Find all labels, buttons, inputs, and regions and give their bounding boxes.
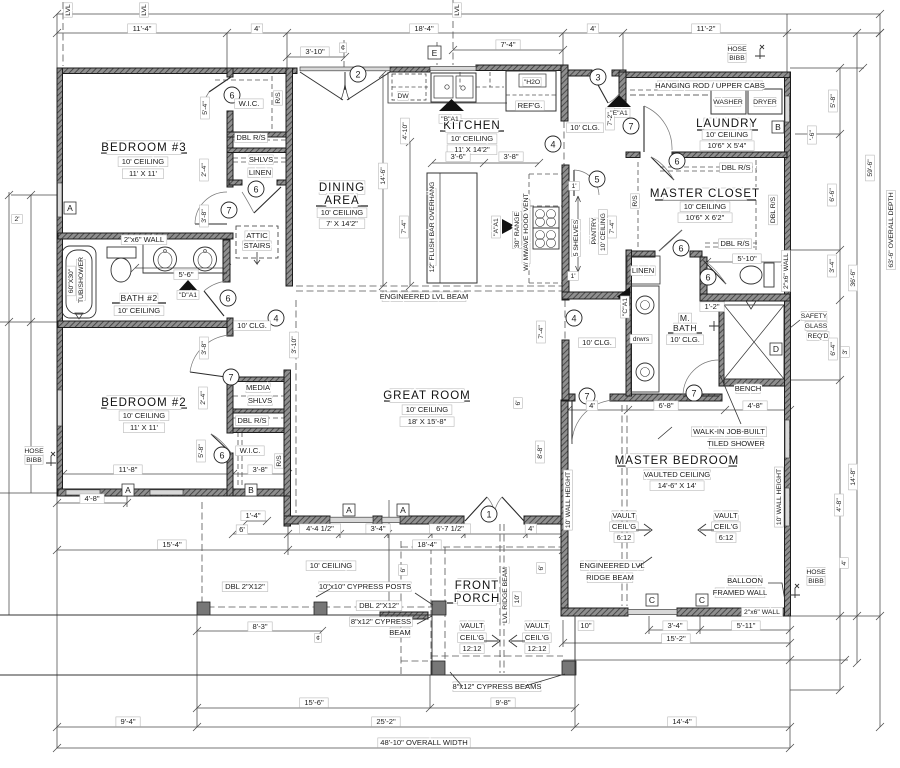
svg-text:6: 6 xyxy=(253,185,258,195)
wall: closet strip west (bedrooms east wall) segments xyxy=(227,68,233,77)
svg-text:A: A xyxy=(67,203,73,213)
fixture: bath2 sinks xyxy=(154,247,177,271)
fixture: linen closet master hall xyxy=(627,256,660,284)
svg-text:PORCH: PORCH xyxy=(454,593,501,605)
svg-text:4'-4 1/2": 4'-4 1/2" xyxy=(306,524,334,533)
svg-text:DW: DW xyxy=(397,93,409,100)
wall: kitchen north segments xyxy=(390,67,430,72)
svg-text:11'-8": 11'-8" xyxy=(119,465,138,474)
svg-text:10' CEILING: 10' CEILING xyxy=(123,411,165,420)
svg-text:4'-10": 4'-10" xyxy=(402,122,409,140)
svg-text:PANTRY: PANTRY xyxy=(591,217,598,244)
svg-text:6:12: 6:12 xyxy=(719,533,734,542)
wall: master bedroom south xyxy=(561,608,628,616)
svg-text:15'-4": 15'-4" xyxy=(162,540,182,549)
marker D'A1 bath2 xyxy=(179,280,197,290)
svg-text:14'-6" X 14': 14'-6" X 14' xyxy=(658,481,697,490)
fixture: master toilet xyxy=(764,263,774,287)
door: toilet room xyxy=(703,260,726,284)
svg-text:15'-6": 15'-6" xyxy=(304,698,324,707)
svg-text:30" RANGE: 30" RANGE xyxy=(514,212,521,248)
door: bedroom2 WIC xyxy=(211,434,232,454)
wall: master closet south xyxy=(626,251,655,257)
wall: bath2 / bedroom2 partition xyxy=(58,321,233,328)
fixture: hose bibb symbols xyxy=(46,452,56,466)
svg-text:1': 1' xyxy=(570,273,575,280)
svg-text:RIDGE BEAM: RIDGE BEAM xyxy=(586,573,634,582)
door: bath2 xyxy=(204,291,224,316)
svg-text:SAFETY: SAFETY xyxy=(801,313,828,320)
svg-text:6': 6' xyxy=(515,400,522,405)
svg-text:BIBB: BIBB xyxy=(729,55,745,62)
svg-text:10'6" X 5'4": 10'6" X 5'4" xyxy=(708,141,747,150)
dash: kitchen-east opening xyxy=(563,121,565,165)
svg-text:60"X30": 60"X30" xyxy=(68,268,75,293)
door: bedroom3 entry xyxy=(195,223,227,225)
svg-text:3'-10": 3'-10" xyxy=(291,336,298,354)
svg-text:8"x12" CYPRESS BEAMS: 8"x12" CYPRESS BEAMS xyxy=(453,682,542,691)
svg-text:11'-2": 11'-2" xyxy=(697,24,716,33)
svg-text:10' CEILING: 10' CEILING xyxy=(310,561,352,570)
svg-text:WASHER: WASHER xyxy=(713,99,743,106)
svg-text:10' WALL HEIGHT: 10' WALL HEIGHT xyxy=(565,472,572,528)
svg-text:4'-8": 4'-8" xyxy=(84,494,99,503)
wall: dining west / closet strip east xyxy=(286,68,293,286)
svg-text:drwrs: drwrs xyxy=(633,336,650,343)
fixture: kitchen island bar xyxy=(427,173,477,283)
marker C'A1 master bath xyxy=(617,287,630,306)
wall: master bedroom west xyxy=(561,400,568,616)
svg-text:TUB/SHOWER: TUB/SHOWER xyxy=(78,257,85,303)
wall: shower west xyxy=(719,301,724,386)
extension verticals bottom xyxy=(197,500,790,748)
svg-text:3'-8": 3'-8" xyxy=(252,465,267,474)
window: bedroom3 left wall xyxy=(58,183,63,217)
svg-text:LVL: LVL xyxy=(141,4,148,16)
extension verticals mid xyxy=(288,496,563,555)
svg-text:3'-4": 3'-4" xyxy=(667,621,682,630)
dim line: 9'-4 / 25'-2 / 14'-4 y727 xyxy=(57,726,790,728)
svg-text:LVL: LVL xyxy=(65,4,72,16)
right chain extension horizontals xyxy=(790,68,880,690)
wall: exterior bottom-left (bedroom2 south) xyxy=(58,489,290,496)
svg-text:W.I.C.: W.I.C. xyxy=(240,446,261,455)
wall: toilet room south / shower north xyxy=(700,294,790,301)
dim line: master south 3'-4 / 5'-11 xyxy=(649,616,790,634)
svg-text:'-6": '-6" xyxy=(809,130,816,140)
svg-text:CEIL'G: CEIL'G xyxy=(612,522,636,531)
svg-text:DBL R/S: DBL R/S xyxy=(236,133,265,142)
wall: master hall south segments + master bath south xyxy=(562,394,575,401)
svg-text:AREA: AREA xyxy=(324,195,359,207)
svg-text:E: E xyxy=(432,48,438,58)
wall: patio step bar xyxy=(380,612,428,619)
svg-text:BENCH: BENCH xyxy=(735,384,762,393)
svg-text:D: D xyxy=(773,344,779,354)
svg-text:6'-4": 6'-4" xyxy=(830,342,837,356)
svg-text:6:12: 6:12 xyxy=(617,533,632,542)
fixture: walk-in shower with X xyxy=(724,305,784,379)
wall: laundry south / master closet north xyxy=(626,152,640,158)
svg-text:6': 6' xyxy=(400,567,407,572)
dash: laundry counter xyxy=(630,89,708,91)
dim line: master hall y410 xyxy=(564,406,794,414)
wall: great room west xyxy=(284,370,291,526)
svg-text:DBL R/S: DBL R/S xyxy=(721,163,750,172)
svg-text:6: 6 xyxy=(674,157,679,167)
svg-text:7: 7 xyxy=(584,392,589,402)
svg-text:6: 6 xyxy=(225,294,230,304)
dash: foyer/great room boundary xyxy=(295,300,297,513)
svg-text:DBL R/S: DBL R/S xyxy=(770,196,777,223)
dim line: dining verticals 14'-6 / 7'-4 xyxy=(379,70,414,290)
svg-text:7: 7 xyxy=(628,122,633,132)
wall: toilet room west xyxy=(700,257,707,301)
svg-text:7'-4": 7'-4" xyxy=(500,40,515,49)
svg-text:2': 2' xyxy=(14,216,19,223)
svg-text:CEIL'G: CEIL'G xyxy=(714,522,738,531)
svg-text:3'-8": 3'-8" xyxy=(201,341,208,355)
svg-text:5'-4": 5'-4" xyxy=(202,101,209,115)
svg-text:10' CEILING: 10' CEILING xyxy=(600,213,607,251)
svg-text:LINEN: LINEN xyxy=(249,168,271,177)
svg-text:10' CEILING: 10' CEILING xyxy=(122,157,164,166)
window: dining casement xyxy=(300,67,390,71)
dash: LVL line top-center xyxy=(452,0,454,65)
svg-text:11'-4": 11'-4" xyxy=(133,24,152,33)
svg-text:R/S: R/S xyxy=(276,455,283,467)
dash: great room-master hall opening xyxy=(564,300,566,340)
svg-text:BATH: BATH xyxy=(673,323,697,333)
wall: pantry south xyxy=(562,292,626,299)
fixture: porch slab lines xyxy=(0,615,575,675)
door: linen closet hall xyxy=(254,187,281,213)
window: great room south x2 xyxy=(330,517,373,522)
svg-text:3'-6": 3'-6" xyxy=(450,152,465,161)
svg-text:DINING: DINING xyxy=(319,182,365,194)
dim line: bath2 5'-6 xyxy=(131,264,231,272)
svg-text:3'-8": 3'-8" xyxy=(503,152,518,161)
door: master closet north xyxy=(651,157,674,180)
svg-text:7: 7 xyxy=(228,373,233,383)
svg-text:M.: M. xyxy=(680,313,690,323)
door: laundry xyxy=(643,106,645,152)
door: bedroom2 entry xyxy=(190,372,233,378)
marker E'A1 laundry xyxy=(607,95,631,107)
svg-text:"B"A1: "B"A1 xyxy=(441,116,459,123)
svg-text:3': 3' xyxy=(842,349,849,354)
svg-text:R/S: R/S xyxy=(275,92,282,104)
svg-text:W/ MWAVE HOOD VENT: W/ MWAVE HOOD VENT xyxy=(523,193,530,270)
svg-text:STAIRS: STAIRS xyxy=(244,241,271,250)
svg-text:LAUNDRY: LAUNDRY xyxy=(696,118,758,130)
svg-text:C: C xyxy=(649,595,655,605)
svg-text:4': 4' xyxy=(589,401,595,410)
wall: master NE (below shower) xyxy=(719,379,790,386)
svg-text:DBL R/S: DBL R/S xyxy=(720,239,749,248)
svg-text:14'-8": 14'-8" xyxy=(850,468,857,486)
dash: porch ridge beam xyxy=(500,524,504,673)
door: master closet south xyxy=(659,230,682,251)
svg-text:6': 6' xyxy=(538,565,545,570)
svg-text:CEIL'G: CEIL'G xyxy=(525,633,549,642)
svg-text:BATH #2: BATH #2 xyxy=(120,293,157,303)
svg-text:A: A xyxy=(400,505,406,515)
room name underlines xyxy=(101,107,758,603)
wall: strip partitions horizontal xyxy=(227,132,290,137)
dim line: 3'-10 window xyxy=(287,56,345,58)
svg-text:LVL RIDGE BEAM: LVL RIDGE BEAM xyxy=(502,567,509,623)
fixture: porch posts xyxy=(197,601,576,675)
svg-text:36'-6": 36'-6" xyxy=(850,269,857,287)
svg-text:12:12: 12:12 xyxy=(527,644,546,653)
dim line: 15'-6 / 9'-8 y708 xyxy=(197,707,575,709)
svg-text:4': 4' xyxy=(254,24,260,33)
svg-text:10' CEILING: 10' CEILING xyxy=(706,130,748,139)
svg-text:5'-11": 5'-11" xyxy=(737,621,756,630)
svg-text:9'-4": 9'-4" xyxy=(120,717,135,726)
window: bedroom2 left wall xyxy=(58,390,63,426)
svg-text:10'6" X 6'2": 10'6" X 6'2" xyxy=(686,213,725,222)
dim line: y660 right xyxy=(563,659,848,661)
svg-text:MEDIA: MEDIA xyxy=(246,383,271,392)
svg-text:7'-4": 7'-4" xyxy=(538,325,545,339)
fixture: kitchen double sink xyxy=(431,73,476,102)
door: master bath entry xyxy=(683,395,719,397)
svg-text:1'-4": 1'-4" xyxy=(245,511,260,520)
svg-text:A: A xyxy=(125,485,131,495)
svg-text:11' X 11': 11' X 11' xyxy=(130,423,158,432)
fixture: shower head mark xyxy=(746,301,756,309)
dim line: topmost overall xyxy=(57,13,880,15)
door: master bedroom entry xyxy=(571,400,573,444)
wall: exterior left xyxy=(57,68,63,496)
svg-text:BEAM: BEAM xyxy=(389,628,411,637)
svg-text:"D"A1: "D"A1 xyxy=(179,292,197,299)
svg-text:18'-4": 18'-4" xyxy=(414,24,434,33)
svg-text:B: B xyxy=(775,122,781,132)
svg-text:SHLVS: SHLVS xyxy=(249,155,273,164)
dim line: top first string xyxy=(57,32,880,34)
svg-text:3'-4": 3'-4" xyxy=(370,524,385,533)
svg-text:10' CLG.: 10' CLG. xyxy=(670,335,700,344)
svg-text:VAULT: VAULT xyxy=(714,511,738,520)
wall: pantry west xyxy=(562,165,569,300)
svg-text:5'-10": 5'-10" xyxy=(737,254,757,263)
svg-text:7' X 14'2": 7' X 14'2" xyxy=(326,219,358,228)
dim line: 7'-4 kitchen top xyxy=(453,49,563,51)
dim line: kitchen 3'-6 / 3'-8 xyxy=(428,159,543,167)
svg-text:10"x10" CYPRESS POSTS: 10"x10" CYPRESS POSTS xyxy=(319,582,411,591)
svg-text:GREAT ROOM: GREAT ROOM xyxy=(383,390,471,402)
svg-text:4'-8": 4'-8" xyxy=(747,401,762,410)
left chain xyxy=(9,192,31,615)
pantry shelf arrow xyxy=(576,196,581,272)
door: bedroom3 WIC xyxy=(209,77,231,92)
svg-text:7: 7 xyxy=(691,389,696,399)
window: master south x2 xyxy=(628,609,677,614)
svg-text:9'-8": 9'-8" xyxy=(495,698,510,707)
fixture: tub/shower 60x30 bath2 xyxy=(62,246,96,318)
svg-text:8'-8": 8'-8" xyxy=(537,445,544,459)
fixture: bath2 vanity counter xyxy=(143,240,227,273)
door: front entry double xyxy=(465,497,524,521)
door: pantry xyxy=(573,170,575,196)
svg-text:C: C xyxy=(699,595,705,605)
svg-text:3'-10": 3'-10" xyxy=(305,47,325,56)
fixture: washer xyxy=(711,89,746,114)
svg-text:2"x6" WALL: 2"x6" WALL xyxy=(783,253,790,289)
svg-text:25'-2": 25'-2" xyxy=(376,717,396,726)
right chain verticals xyxy=(840,33,857,690)
svg-text:CEIL'G: CEIL'G xyxy=(460,633,484,642)
svg-text:7: 7 xyxy=(226,206,231,216)
svg-text:BEDROOM #3: BEDROOM #3 xyxy=(101,142,186,154)
dim line: 15'-4 / 18'-4 y550 xyxy=(57,549,563,551)
fixture: dryer xyxy=(748,89,782,114)
wall: master bath west xyxy=(626,250,632,396)
dim line: 4'-8 left xyxy=(57,496,127,748)
svg-text:10' WALL HEIGHT: 10' WALL HEIGHT xyxy=(776,469,783,525)
svg-text:10' CEILING: 10' CEILING xyxy=(684,202,726,211)
svg-text:6'-7 1/2": 6'-7 1/2" xyxy=(436,524,464,533)
window: master right wall x2 xyxy=(785,420,790,458)
wall: great room east segment xyxy=(562,340,569,400)
svg-text:R/S: R/S xyxy=(632,195,639,207)
fixture: attic stairs dashed box xyxy=(236,226,278,258)
svg-text:BALLOON: BALLOON xyxy=(727,576,763,585)
dash: E marker line xyxy=(436,42,438,65)
svg-text:14'-4": 14'-4" xyxy=(672,717,692,726)
fixture: dishwasher box xyxy=(392,74,426,100)
dash: LVL line top-left xyxy=(62,2,64,66)
wall: laundry west upper xyxy=(619,72,626,104)
svg-text:1: 1 xyxy=(486,510,491,520)
svg-text:10' CLG.: 10' CLG. xyxy=(237,321,267,330)
svg-text:10' CEILING: 10' CEILING xyxy=(451,134,493,143)
svg-text:12:12: 12:12 xyxy=(462,644,481,653)
svg-text:4': 4' xyxy=(590,24,596,33)
svg-text:10' CEILING: 10' CEILING xyxy=(118,306,160,315)
svg-text:4'-8": 4'-8" xyxy=(836,498,843,512)
svg-text:8"x12" CYPRESS: 8"x12" CYPRESS xyxy=(351,617,411,626)
right chain ticks xyxy=(836,29,884,731)
window: laundry right wall xyxy=(785,96,790,122)
svg-text:HANGING ROD / UPPER CABS: HANGING ROD / UPPER CABS xyxy=(655,81,765,90)
svg-text:A: A xyxy=(346,505,352,515)
section marker triangles xyxy=(179,95,631,306)
svg-text:WALK-IN JOB-BUILT: WALK-IN JOB-BUILT xyxy=(693,427,765,436)
svg-text:4: 4 xyxy=(550,140,555,150)
dash: fridge recess xyxy=(506,94,556,96)
wall: great room south w/ door opening xyxy=(284,516,330,524)
svg-text:HOSE: HOSE xyxy=(727,46,747,53)
svg-text:5'-8": 5'-8" xyxy=(830,94,837,108)
svg-text:HOSE: HOSE xyxy=(24,448,44,455)
dim line: foyer string y534 xyxy=(233,533,563,535)
svg-text:18'-4": 18'-4" xyxy=(417,540,437,549)
svg-text:7'-4": 7'-4" xyxy=(609,220,616,234)
svg-text:10' CEILING: 10' CEILING xyxy=(321,208,363,217)
svg-text:W.I.C.: W.I.C. xyxy=(239,99,260,108)
svg-text:4: 4 xyxy=(571,314,576,324)
svg-text:2"x6" WALL: 2"x6" WALL xyxy=(124,235,164,244)
svg-text:"H2O: "H2O xyxy=(524,79,540,86)
svg-text:6': 6' xyxy=(239,525,245,534)
svg-text:¢: ¢ xyxy=(316,635,320,642)
dash: closet rods xyxy=(233,140,286,418)
svg-text:ENGINEERED LVL: ENGINEERED LVL xyxy=(579,561,644,570)
svg-text:DBL R/S: DBL R/S xyxy=(237,416,266,425)
svg-text:2'-4": 2'-4" xyxy=(200,391,207,405)
svg-text:6'-6": 6'-6" xyxy=(829,188,836,202)
svg-text:63'-6" OVERALL DEPTH: 63'-6" OVERALL DEPTH xyxy=(888,192,895,267)
fixture: shower cross + xyxy=(709,321,719,331)
dim line: 1'-4 stub xyxy=(243,517,271,525)
dash: patio roof edge xyxy=(197,502,444,607)
svg-text:ATTIC: ATTIC xyxy=(246,231,268,240)
svg-text:1'-2": 1'-2" xyxy=(704,302,719,311)
wall: exterior top-left (bedroom3/WIC top) xyxy=(58,68,297,74)
wall: great room SW corner stub xyxy=(284,496,291,516)
svg-text:6: 6 xyxy=(229,91,234,101)
svg-text:LINEN: LINEN xyxy=(632,266,654,275)
svg-text:6: 6 xyxy=(678,244,683,254)
svg-text:5 SHELVES: 5 SHELVES xyxy=(573,219,580,256)
svg-text:VAULT: VAULT xyxy=(525,621,549,630)
svg-text:ENGINEERED LVL BEAM: ENGINEERED LVL BEAM xyxy=(380,292,469,301)
svg-text:11' X 11': 11' X 11' xyxy=(129,169,157,178)
svg-text:FRAMED WALL: FRAMED WALL xyxy=(713,588,768,597)
svg-text:8'-3": 8'-3" xyxy=(252,622,267,631)
svg-text:10' CLG.: 10' CLG. xyxy=(582,338,612,347)
svg-text:TILED SHOWER: TILED SHOWER xyxy=(707,439,765,448)
svg-text:GLASS: GLASS xyxy=(805,323,828,330)
svg-text:5: 5 xyxy=(594,175,599,185)
fixture: range/cooktop xyxy=(533,207,559,228)
dash: WIC rods xyxy=(215,76,272,488)
fixture: dining casement window symbol xyxy=(300,72,390,100)
svg-text:6'-8": 6'-8" xyxy=(658,401,673,410)
dash: kitchen base cabinets xyxy=(529,174,564,283)
svg-text:59'-6": 59'-6" xyxy=(867,159,874,177)
letter boxes xyxy=(64,46,784,606)
wall: laundry north (exterior top-right) xyxy=(626,72,790,78)
svg-text:7'-4": 7'-4" xyxy=(401,220,408,234)
svg-text:15'-2": 15'-2" xyxy=(666,634,686,643)
svg-text:¢: ¢ xyxy=(341,43,345,52)
fixture: laundry upper cabs line xyxy=(630,94,708,96)
dim line: 48'-10 overall y748 xyxy=(57,747,790,749)
svg-text:2: 2 xyxy=(355,70,360,80)
wall: bedroom3 / bath2 partition 2x6 xyxy=(58,233,233,239)
svg-text:REQ'D: REQ'D xyxy=(808,333,829,340)
svg-text:LVL: LVL xyxy=(454,4,461,16)
svg-text:14'-6": 14'-6" xyxy=(380,167,387,185)
svg-text:REF'G.: REF'G. xyxy=(518,101,543,110)
marker B'A1 kitchen xyxy=(439,99,464,111)
circled door/window numbers xyxy=(214,66,716,522)
svg-text:5'-8": 5'-8" xyxy=(198,444,205,458)
dim ticks top xyxy=(53,10,884,61)
svg-text:10' CLG.: 10' CLG. xyxy=(570,123,600,132)
svg-text:12" FLUSH BAR OVERHANG: 12" FLUSH BAR OVERHANG xyxy=(429,182,436,273)
svg-text:2"x6" WALL: 2"x6" WALL xyxy=(744,609,780,616)
svg-text:6: 6 xyxy=(705,273,710,283)
dash: porch roof lines xyxy=(401,541,563,675)
fixture: kitchen sink counter xyxy=(388,72,507,103)
svg-text:BIBB: BIBB xyxy=(26,457,42,464)
